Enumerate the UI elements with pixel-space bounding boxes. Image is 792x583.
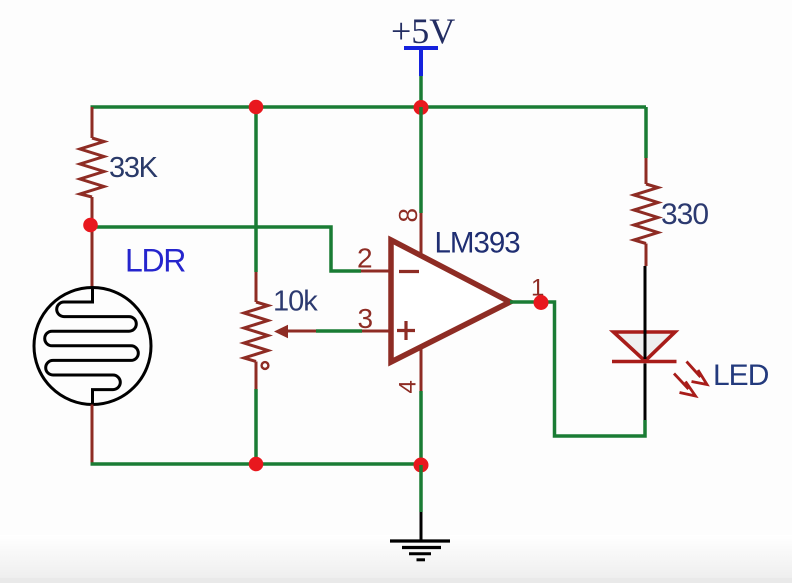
svg-text:4: 4 — [395, 380, 422, 393]
junction node A — [83, 218, 98, 233]
svg-text:33K: 33K — [109, 152, 159, 184]
svg-text:10k: 10k — [273, 286, 318, 318]
junction bottom rail / ground — [414, 458, 429, 473]
svg-text:2: 2 — [357, 243, 373, 274]
wire pin8 — [419, 107, 423, 213]
svg-text:+5V: +5V — [391, 11, 455, 51]
power +5V symbol — [404, 48, 438, 76]
LED cathode bar — [612, 360, 677, 364]
op-amp U1 LM393 — [361, 213, 510, 391]
wire bottom rail — [91, 462, 422, 466]
wire top rail — [91, 105, 647, 109]
svg-text:8: 8 — [393, 208, 423, 222]
LED light arrows — [674, 362, 707, 397]
svg-text:330: 330 — [661, 198, 708, 231]
junction bottom rail / pot — [249, 457, 264, 472]
wire pot bottom — [254, 389, 258, 464]
wire +5V to top rail — [419, 76, 423, 107]
LED anode lead — [644, 266, 647, 359]
wire pot wiper to pin3 — [316, 329, 362, 333]
wire right vertical top — [644, 107, 648, 158]
svg-text:LDR: LDR — [125, 243, 185, 279]
junction top rail / pot — [249, 100, 264, 115]
wire LDR bottom lead — [91, 405, 94, 465]
potentiometer wiper arrow — [274, 325, 288, 339]
resistor 330 — [634, 158, 658, 266]
potentiometer 10k — [244, 272, 316, 389]
wire pin4 to bottom rail — [419, 391, 423, 464]
junction output node — [534, 295, 549, 310]
wire left vertical top (to 33K) — [91, 107, 94, 138]
LDR body — [34, 288, 151, 405]
junction top rail / pin8 — [414, 100, 429, 115]
ground — [390, 512, 450, 560]
LED cathode lead — [644, 364, 647, 421]
wire node A to pin2 — [92, 227, 361, 271]
wire pot top — [254, 107, 258, 272]
wire to ground — [419, 465, 423, 512]
svg-text:LED: LED — [713, 359, 769, 392]
LED D1 — [614, 332, 676, 361]
wire output pin1 — [510, 302, 645, 436]
resistor 33K — [80, 138, 104, 197]
svg-text:LM393: LM393 — [435, 227, 521, 260]
svg-text:3: 3 — [358, 303, 374, 334]
wire 33K bottom to node A — [91, 197, 94, 288]
